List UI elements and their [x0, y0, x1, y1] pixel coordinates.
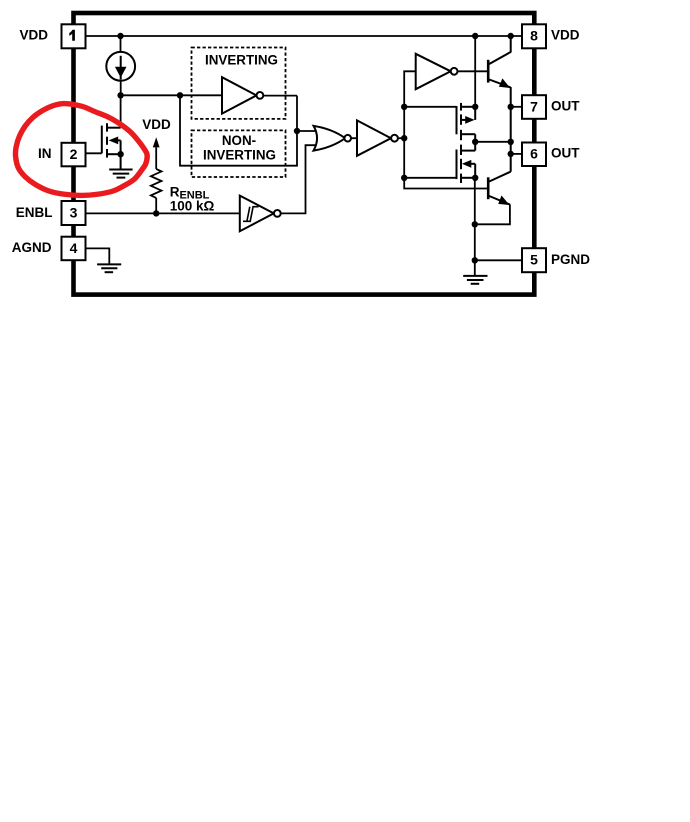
node PGND tap: [472, 257, 478, 263]
svg-text:2: 2: [70, 146, 78, 162]
node output mid: [472, 139, 478, 145]
wire ENBL rail: [86, 212, 240, 214]
node bus gate top: [401, 104, 407, 110]
node OUT6: [508, 151, 514, 157]
wire OUT7: [511, 106, 522, 108]
wire gate top: [404, 106, 456, 108]
pin 5: [522, 248, 546, 272]
svg-text:VDD: VDD: [142, 117, 171, 132]
wire U3 output: [398, 137, 404, 139]
node ENBL resistor tap: [153, 210, 159, 216]
wire G1 output: [351, 137, 357, 139]
wire input signal rail: [121, 94, 222, 96]
svg-text:5: 5: [530, 252, 538, 268]
svg-text:OUT: OUT: [551, 98, 580, 113]
NOR gate G1: [314, 126, 352, 151]
svg-text:OUT: OUT: [551, 146, 580, 161]
dashed option box NON-INVERTING: [192, 130, 286, 177]
wire gate bottom: [404, 177, 456, 179]
wire current-source branch: [120, 36, 122, 52]
node option merge: [294, 128, 300, 134]
svg-text:6: 6: [530, 146, 538, 162]
current source I1: [106, 52, 135, 81]
svg-text:VDD: VDD: [551, 28, 580, 43]
transistor M3 lower output MOSFET: [457, 145, 476, 183]
transistor Q1 top NPN: [488, 36, 511, 172]
pin 1: [62, 24, 86, 48]
wire U4 to Q1 base: [458, 70, 488, 72]
wire pin2 to M1 gate: [86, 152, 102, 154]
wire driver input bus: [404, 71, 487, 188]
transistor M1 input MOSFET: [102, 123, 121, 169]
pin 8: [522, 24, 546, 48]
node Q2 emitter junction: [472, 221, 478, 227]
node OUT mid: [508, 139, 514, 145]
wire PGND: [475, 259, 522, 261]
node rail tap Q1: [508, 33, 514, 39]
node non-inverting tap: [177, 92, 183, 98]
node rail tap I1: [117, 33, 123, 39]
transistor Q2 bottom NPN: [475, 172, 511, 225]
pin 3: [62, 201, 86, 225]
wire U2 output to NOR input B: [281, 145, 317, 213]
transistor M2 upper output MOSFET: [457, 103, 476, 151]
wire merge to NOR input A: [297, 130, 317, 132]
svg-text:PGND: PGND: [551, 252, 590, 267]
svg-text:INVERTING: INVERTING: [205, 53, 278, 68]
node M1 source junction: [117, 151, 123, 157]
IC boundary box: [74, 13, 535, 295]
svg-text:INVERTING: INVERTING: [203, 148, 276, 163]
wire M3 source to PGND: [474, 178, 476, 276]
pin 7: [522, 95, 546, 119]
node bus signal: [401, 135, 407, 141]
node rail tap M2: [472, 33, 478, 39]
node input rail tap: [117, 92, 123, 98]
node M2 drain: [472, 104, 478, 110]
node bus gate bottom: [401, 175, 407, 181]
svg-text:ENBL: ENBL: [16, 205, 53, 220]
transistor M1 input MOSFET drain wire: [120, 95, 122, 127]
wire VDD top rail: [86, 35, 523, 37]
schmitt inverter U2: [240, 196, 274, 232]
svg-text:AGND: AGND: [12, 240, 52, 255]
node M3 source: [472, 175, 478, 181]
svg-text:8: 8: [530, 28, 538, 44]
wire OUT6: [511, 153, 522, 155]
inverter U3: [357, 120, 391, 155]
svg-text:3: 3: [70, 204, 78, 220]
pin 6: [522, 143, 546, 167]
svg-text:4: 4: [70, 240, 78, 256]
wire mid node to OUT bus: [475, 141, 511, 143]
inverter U4 top driver: [416, 54, 451, 89]
wire AGND: [86, 248, 110, 264]
svg-text:NON-: NON-: [222, 133, 256, 148]
svg-text:VDD: VDD: [19, 28, 48, 43]
red annotation circle around IN stage: [15, 104, 147, 196]
ground PGND: [463, 276, 487, 284]
pin 2: [62, 143, 86, 167]
resistor R_ENBL 100k: [151, 137, 162, 213]
wire non-inverting path: [180, 95, 297, 165]
wire current-source to node: [120, 81, 122, 96]
svg-text:IN: IN: [38, 146, 52, 161]
wire U1 output: [263, 95, 297, 97]
pin 4: [62, 237, 86, 261]
wire VDD drop to MOSFETs: [474, 36, 476, 107]
inverter U1 inverting buffer: [222, 77, 257, 113]
node OUT7: [508, 104, 514, 110]
svg-text:7: 7: [530, 98, 538, 114]
svg-text:100 kΩ: 100 kΩ: [170, 199, 215, 214]
ground below M1: [109, 170, 132, 178]
dashed option box INVERTING: [192, 48, 286, 119]
ground AGND: [97, 264, 121, 272]
